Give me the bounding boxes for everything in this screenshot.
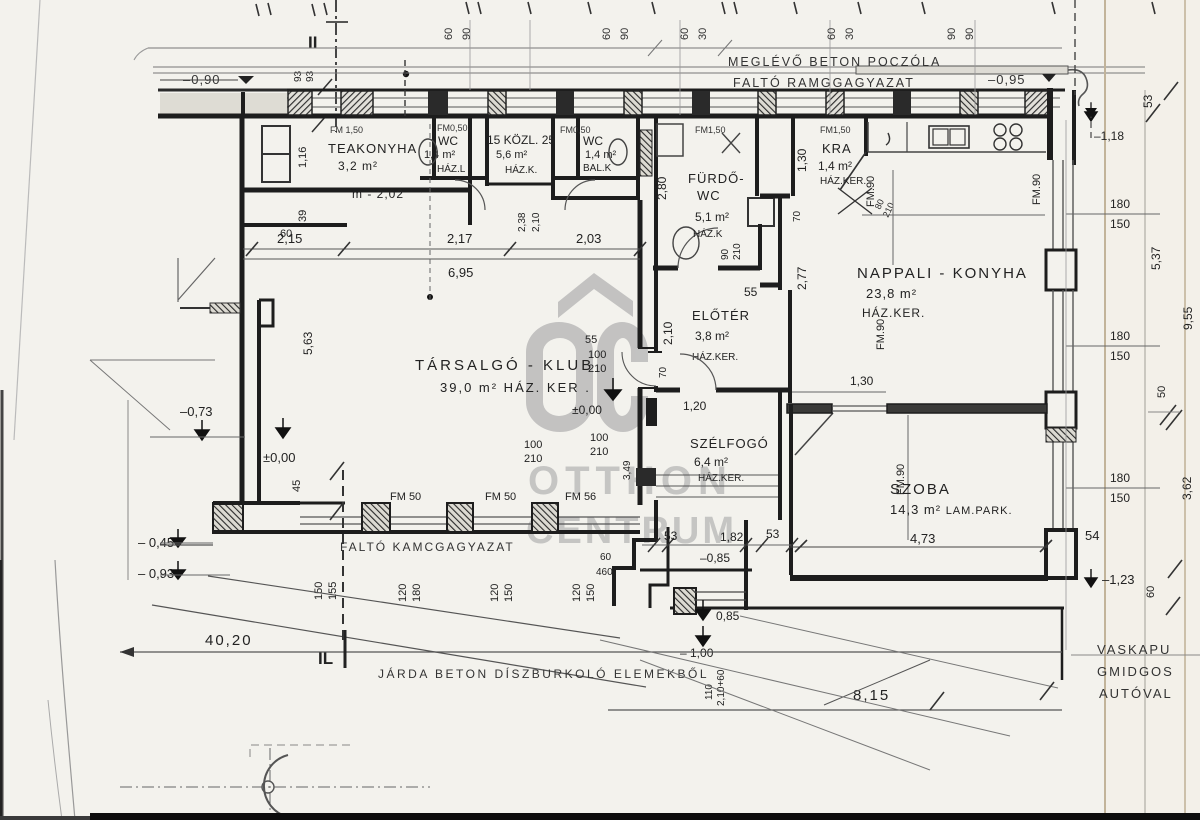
svg-text:–0,95: –0,95 (988, 72, 1026, 87)
svg-text:±0,00: ±0,00 (572, 403, 602, 417)
section marker II top (293, 0, 409, 132)
svg-text:15 KÖZL. 25: 15 KÖZL. 25 (487, 133, 555, 147)
steps (656, 474, 778, 476)
svg-text:39,0 m² HÁZ. KER .: 39,0 m² HÁZ. KER . (440, 380, 591, 395)
existing concrete fence band (856, 66, 1068, 74)
svg-text:93: 93 (305, 70, 316, 82)
svg-text:4,73: 4,73 (910, 531, 935, 546)
svg-text:1,16: 1,16 (297, 147, 309, 168)
svg-text:60: 60 (826, 28, 838, 40)
window double lines (287, 98, 1060, 107)
svg-text:6,95: 6,95 (448, 265, 473, 280)
svg-text:FM.90: FM.90 (865, 176, 877, 207)
svg-text:IL: IL (318, 649, 333, 668)
svg-text:FALTÓ KAMCGAGYAZAT: FALTÓ KAMCGAGYAZAT (340, 539, 515, 554)
svg-text:8,15: 8,15 (853, 687, 890, 704)
svg-text:1,4 m²: 1,4 m² (424, 149, 456, 161)
svg-text:180: 180 (411, 584, 423, 602)
svg-text:AUTÓVAL: AUTÓVAL (1099, 686, 1173, 701)
sill block (1046, 250, 1076, 290)
svg-text:0,85: 0,85 (716, 609, 740, 623)
svg-text:6,4 m²: 6,4 m² (694, 455, 728, 469)
svg-text:30: 30 (844, 28, 856, 40)
svg-text:HÁZ.KER.: HÁZ.KER. (698, 471, 744, 484)
svg-text:150: 150 (585, 584, 597, 602)
svg-text:60: 60 (600, 552, 612, 563)
svg-text:NAPPALI - KONYHA: NAPPALI - KONYHA (857, 265, 1028, 282)
svg-text:FALTÓ RAMGGAGYAZAT: FALTÓ RAMGGAGYAZAT (733, 75, 915, 90)
svg-text:WC: WC (438, 134, 458, 148)
letter O of logo (526, 322, 593, 432)
bottom corner (1046, 530, 1076, 578)
svg-text:1,4 m²: 1,4 m² (818, 159, 852, 173)
svg-text:3,2 m²: 3,2 m² (338, 159, 378, 173)
svg-text:2,10+60: 2,10+60 (716, 669, 727, 706)
svg-text:60: 60 (443, 28, 455, 40)
svg-text:FM0,50: FM0,50 (560, 125, 591, 135)
svg-text:70: 70 (658, 366, 669, 378)
svg-text:460: 460 (596, 567, 613, 578)
svg-text:1,82: 1,82 (720, 530, 744, 544)
svg-text:HÁZ.L: HÁZ.L (437, 162, 466, 175)
svg-text:SZOBA: SZOBA (890, 481, 951, 498)
svg-text:60: 60 (601, 28, 613, 40)
svg-text:WC: WC (697, 188, 721, 203)
svg-text:210: 210 (590, 446, 608, 458)
svg-text:FM 50: FM 50 (390, 491, 421, 503)
svg-text:53: 53 (766, 527, 780, 541)
svg-text:150: 150 (1110, 217, 1130, 231)
section line II bottom dashed (342, 470, 344, 640)
svg-text:90: 90 (720, 248, 731, 260)
svg-text:5,6 m²: 5,6 m² (496, 149, 528, 161)
neighbor wall stub (180, 307, 240, 309)
chimney dashed (404, 60, 406, 120)
svg-text:1,20: 1,20 (683, 399, 707, 413)
svg-text:39: 39 (297, 210, 309, 222)
svg-text:23,8 m²: 23,8 m² (866, 286, 917, 301)
svg-text:BAL.K: BAL.K (583, 163, 612, 174)
svg-text:TÁRSALGÓ - KLUB: TÁRSALGÓ - KLUB (415, 357, 594, 374)
svg-text:150: 150 (313, 582, 325, 600)
svg-text:2,10: 2,10 (661, 321, 675, 345)
svg-text:FM1,50: FM1,50 (695, 125, 726, 135)
svg-text:120: 120 (397, 584, 409, 602)
dim verticals faint (470, 20, 1066, 650)
svg-text:2,10: 2,10 (531, 212, 542, 232)
svg-text:150: 150 (503, 584, 515, 602)
svg-text:53: 53 (664, 529, 678, 543)
svg-text:150: 150 (1110, 491, 1130, 505)
survey markers (605, 378, 621, 400)
svg-text:60: 60 (1145, 586, 1157, 598)
top-right dashed vertical (1074, 0, 1076, 95)
svg-text:180: 180 (1110, 471, 1130, 485)
svg-text:90: 90 (461, 28, 473, 40)
svg-text:1,30: 1,30 (795, 148, 809, 172)
svg-text:FM.90: FM.90 (1031, 174, 1043, 205)
svg-text:1,4 m²: 1,4 m² (585, 149, 617, 161)
svg-text:55: 55 (744, 285, 758, 299)
svg-text:210: 210 (524, 453, 542, 465)
svg-text:3,62: 3,62 (1180, 476, 1194, 500)
svg-text:JÁRDA BETON DÍSZBURKOLÓ ELEMEK: JÁRDA BETON DÍSZBURKOLÓ ELEMEKBŐL (378, 666, 709, 681)
svg-text:FM 50: FM 50 (485, 491, 516, 503)
svg-text:50: 50 (1156, 386, 1168, 398)
svg-text:70: 70 (792, 210, 803, 222)
svg-text:II: II (308, 33, 317, 52)
neighbor triangle (178, 258, 215, 302)
svg-text:–0,73: –0,73 (180, 404, 213, 419)
svg-text:HÁZ.KER.: HÁZ.KER. (820, 174, 866, 187)
svg-text:m - 2,02: m - 2,02 (352, 187, 404, 201)
corridor wall under teakonyha row (243, 223, 347, 227)
svg-text:9,55: 9,55 (1181, 306, 1195, 330)
svg-text:FM 1,50: FM 1,50 (330, 125, 363, 135)
rotated numbers top (443, 28, 976, 40)
svg-text:2,17: 2,17 (447, 231, 472, 246)
svg-text:5,1 m²: 5,1 m² (695, 210, 729, 224)
svg-text:ELŐTÉR: ELŐTÉR (692, 308, 750, 323)
svg-text:5,63: 5,63 (301, 331, 315, 355)
svg-text:150: 150 (1110, 349, 1130, 363)
svg-text:100: 100 (588, 349, 606, 361)
piers (288, 91, 1051, 115)
svg-text:TEAKONYHA: TEAKONYHA (328, 141, 417, 156)
kitchen counter (868, 151, 1046, 153)
zigzag steps left (614, 500, 656, 606)
svg-text:180: 180 (1110, 197, 1130, 211)
svg-text:HÁZ.KER.: HÁZ.KER. (692, 350, 738, 363)
svg-text:53: 53 (1141, 94, 1155, 108)
hook at fence end (1068, 70, 1087, 106)
svg-text:3,49: 3,49 (622, 460, 633, 480)
svg-text:HÁZ.K.: HÁZ.K. (505, 163, 537, 176)
svg-text:SZÉLFOGÓ: SZÉLFOGÓ (690, 436, 769, 451)
svg-text:60: 60 (280, 228, 292, 240)
svg-text:–1,18: –1,18 (1094, 129, 1124, 143)
svg-text:2,38: 2,38 (517, 212, 528, 232)
bottom-left symbol (120, 745, 430, 820)
svg-text:54: 54 (1085, 528, 1099, 543)
svg-text:210: 210 (732, 243, 743, 260)
piers (362, 503, 390, 532)
svg-text:180: 180 (1110, 329, 1130, 343)
svg-text:155: 155 (327, 582, 339, 600)
svg-text:60: 60 (679, 28, 691, 40)
svg-text:±0,00: ±0,00 (263, 450, 295, 465)
svg-text:55: 55 (585, 334, 597, 346)
svg-text:90: 90 (946, 28, 958, 40)
svg-text:–1,23: –1,23 (1102, 572, 1135, 587)
roof chevron (558, 273, 633, 318)
svg-text:5,37: 5,37 (1149, 246, 1163, 270)
svg-text:100: 100 (524, 439, 542, 451)
svg-text:FM0,50: FM0,50 (437, 123, 468, 133)
window 1 (1052, 160, 1054, 250)
svg-text:FM 56: FM 56 (565, 491, 596, 503)
svg-text:2,03: 2,03 (576, 231, 601, 246)
left paper crease (14, 0, 40, 440)
svg-text:WC: WC (583, 134, 603, 148)
svg-text:HÁZ.K: HÁZ.K (693, 227, 723, 240)
svg-text:2,80: 2,80 (655, 176, 669, 200)
letter C of logo (597, 322, 648, 432)
svg-text:45: 45 (291, 480, 303, 492)
svg-text:90: 90 (964, 28, 976, 40)
porch (640, 569, 752, 572)
svg-text:40,20: 40,20 (205, 632, 253, 649)
svg-text:FM1,50: FM1,50 (820, 125, 851, 135)
svg-text:210: 210 (588, 363, 606, 375)
svg-text:93: 93 (293, 70, 304, 82)
svg-text:– 0,93: – 0,93 (138, 566, 174, 581)
dim chain row (243, 248, 640, 250)
thick site wall line (160, 93, 287, 115)
svg-text:MEGLÉVŐ BETON POCZÓLA: MEGLÉVŐ BETON POCZÓLA (728, 54, 941, 69)
svg-text:1,30: 1,30 (850, 374, 874, 388)
window 3 (1052, 428, 1054, 528)
svg-text:120: 120 (571, 584, 583, 602)
svg-text:3,8 m²: 3,8 m² (695, 329, 729, 343)
svg-text:–0,85: –0,85 (700, 551, 730, 565)
svg-text:FÜRDŐ-: FÜRDŐ- (688, 171, 745, 186)
svg-text:100: 100 (590, 432, 608, 444)
svg-text:120: 120 (489, 584, 501, 602)
right wall of tarsalgo (638, 200, 643, 348)
svg-text:14,3 m² LAM.PARK.: 14,3 m² LAM.PARK. (890, 502, 1013, 517)
svg-text:GMIDGOS: GMIDGOS (1097, 664, 1174, 679)
svg-text:KRA: KRA (822, 141, 852, 156)
svg-text:30: 30 (697, 28, 709, 40)
svg-text:FM.90: FM.90 (875, 319, 887, 350)
svg-text:HÁZ.KER.: HÁZ.KER. (862, 305, 925, 320)
svg-text:– 1,00: – 1,00 (680, 646, 714, 660)
window 2 (1052, 290, 1054, 392)
right wall (778, 390, 782, 520)
svg-text:2,77: 2,77 (795, 266, 809, 290)
svg-text:90: 90 (619, 28, 631, 40)
